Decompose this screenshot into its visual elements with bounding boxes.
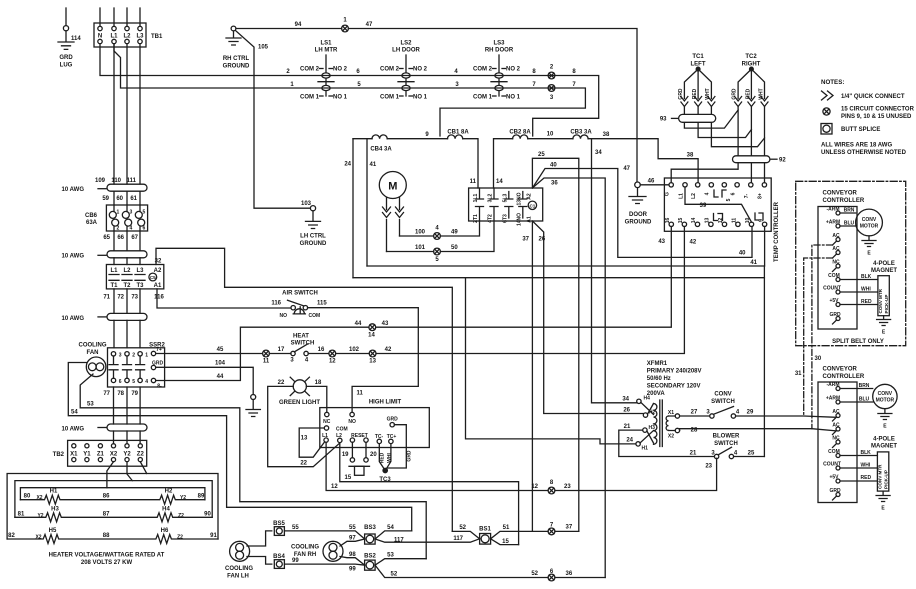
heater bus 1 outer <box>7 474 218 540</box>
svg-text:38: 38 <box>603 132 610 138</box>
svg-text:BLK: BLK <box>861 274 872 280</box>
wire TC1 WHT to TC2 WHT <box>711 107 764 147</box>
heater bus 2 middle <box>15 481 212 518</box>
svg-text:GRD: GRD <box>59 55 73 61</box>
svg-text:GREEN LIGHT: GREEN LIGHT <box>279 400 320 406</box>
wire 39 L1 to pin 10 <box>685 187 752 222</box>
blower switch <box>711 434 740 459</box>
wire 117 BS3 to BS1 <box>375 539 480 542</box>
green light <box>279 377 320 406</box>
conveyor motor 1 <box>840 208 882 257</box>
svg-text:A1: A1 <box>154 283 162 289</box>
svg-text:N: N <box>98 34 102 40</box>
svg-text:24: 24 <box>626 438 633 444</box>
wire 47 top run <box>349 29 638 182</box>
controller 2 terminal -ARM <box>836 387 840 391</box>
svg-text:TC1: TC1 <box>692 54 704 60</box>
wire 21 H3 to blower switch <box>619 430 715 456</box>
svg-text:M: M <box>388 181 397 193</box>
wire L2 splice to CB6 <box>126 191 128 205</box>
svg-text:G: G <box>665 192 671 196</box>
svg-text:88: 88 <box>103 533 110 539</box>
wire 16 <box>308 353 329 355</box>
contactor C1 pole 5L3 6T3 <box>502 192 513 223</box>
svg-text:GRD: GRD <box>829 488 841 494</box>
svg-text:COOLING: COOLING <box>291 545 319 551</box>
wire pin 9 stub to 41 line <box>764 227 766 267</box>
contactor C1 pole 1L1 2T1 <box>473 188 484 223</box>
svg-text:C5: C5 <box>150 275 156 280</box>
connector splice 14 <box>368 324 376 339</box>
svg-text:TEMP CONTROLLER: TEMP CONTROLLER <box>774 201 780 262</box>
conveyor controller 2 box <box>818 382 857 503</box>
svg-text:28: 28 <box>691 428 698 434</box>
solid state relay SSR2 <box>108 343 166 390</box>
wire 101 <box>387 251 434 253</box>
svg-text:NO 2: NO 2 <box>506 67 521 73</box>
wire GRD high limit to TC3 shield <box>387 425 406 468</box>
svg-text:COUNT: COUNT <box>823 286 841 292</box>
svg-text:BLK: BLK <box>861 450 872 456</box>
svg-text:40: 40 <box>550 163 557 169</box>
reset button terminals <box>352 442 366 457</box>
motor lead left with quick connect arrows <box>386 198 388 252</box>
temp controller pin 11 <box>736 222 740 226</box>
svg-text:78: 78 <box>117 391 124 397</box>
butt splice BS5 <box>273 521 285 535</box>
svg-text:CB3 3A: CB3 3A <box>570 130 592 136</box>
svg-text:10 AWG: 10 AWG <box>62 254 85 260</box>
wire 45 SSR2 to heat switch <box>156 353 262 355</box>
svg-text:Y2: Y2 <box>37 513 43 519</box>
svg-text:53: 53 <box>387 553 394 559</box>
svg-text:21: 21 <box>624 424 631 430</box>
motor M <box>379 172 406 199</box>
controller 1 terminal COUNT <box>836 290 840 294</box>
svg-text:52: 52 <box>459 525 466 531</box>
svg-text:LUG: LUG <box>60 63 73 69</box>
svg-text:LS3: LS3 <box>493 41 505 47</box>
svg-text:HIGH LIMIT: HIGH LIMIT <box>369 400 402 406</box>
svg-text:L1: L1 <box>110 34 118 40</box>
svg-text:L1: L1 <box>110 268 118 274</box>
svg-text:X1: X1 <box>70 451 78 457</box>
wire 94 top run <box>236 28 342 30</box>
svg-text:3L2: 3L2 <box>488 193 494 202</box>
svg-text:5: 5 <box>132 379 135 385</box>
controller 2 terminal +ARM <box>836 400 840 404</box>
svg-text:93: 93 <box>660 117 667 123</box>
svg-text:16: 16 <box>665 218 671 224</box>
svg-text:43: 43 <box>658 239 665 245</box>
svg-text:WHT: WHT <box>758 88 764 99</box>
svg-text:6T3: 6T3 <box>502 214 508 223</box>
svg-text:1: 1 <box>145 352 148 358</box>
svg-text:TB2: TB2 <box>53 452 65 458</box>
svg-text:NO 1: NO 1 <box>506 95 521 101</box>
svg-text:45: 45 <box>217 347 224 353</box>
svg-text:43: 43 <box>382 321 389 327</box>
svg-text:13: 13 <box>705 218 711 224</box>
svg-text:44: 44 <box>355 321 362 327</box>
svg-text:13: 13 <box>369 359 376 365</box>
svg-text:MAGNET: MAGNET <box>871 444 897 450</box>
svg-text:2: 2 <box>132 352 135 358</box>
svg-text:89: 89 <box>198 494 205 500</box>
svg-text:RED: RED <box>861 475 872 481</box>
svg-text:MAGNET: MAGNET <box>871 268 897 274</box>
thermocouple TC2 RIGHT <box>732 54 768 107</box>
wire 46 <box>640 184 669 186</box>
svg-text:NO: NO <box>348 419 356 425</box>
svg-text:COM 1: COM 1 <box>300 95 320 101</box>
TB2 terminal X2 <box>111 444 115 448</box>
wire 54 BS3 diagonal <box>375 531 412 539</box>
svg-text:208 VOLTS 27 KW: 208 VOLTS 27 KW <box>81 560 133 566</box>
svg-text:11: 11 <box>470 179 477 185</box>
svg-text:WHT: WHT <box>705 88 711 99</box>
svg-text:15: 15 <box>345 475 352 481</box>
heater row 2 elements H3 H4 <box>15 506 212 522</box>
svg-text:27: 27 <box>691 410 698 416</box>
svg-text:WHI: WHI <box>861 287 871 293</box>
svg-text:LH MTR: LH MTR <box>315 48 338 54</box>
svg-text:99: 99 <box>349 567 356 573</box>
wire 116 run C5 A1 to air switch NO <box>157 289 290 308</box>
svg-text:T1: T1 <box>110 283 118 289</box>
svg-text:26: 26 <box>623 408 630 414</box>
svg-text:CB6: CB6 <box>85 213 98 219</box>
wire TC2 RED down to pin 7 <box>750 107 752 183</box>
svg-text:L1: L1 <box>322 433 328 439</box>
svg-text:BRN: BRN <box>844 208 855 214</box>
wire TC1 GRD to TC2 GRD <box>684 107 738 129</box>
svg-text:AC: AC <box>832 246 840 252</box>
wire 17 <box>269 353 291 355</box>
svg-text:XFMR1: XFMR1 <box>647 361 668 367</box>
heat switch <box>290 334 314 364</box>
svg-text:BS1: BS1 <box>479 527 491 533</box>
svg-text:104: 104 <box>215 361 226 367</box>
svg-text:47: 47 <box>623 166 630 172</box>
svg-text:BS2: BS2 <box>364 554 376 560</box>
svg-text:BS5: BS5 <box>273 521 285 527</box>
temp controller pin 9 <box>762 222 766 226</box>
controller 2 terminal +5V <box>836 479 840 483</box>
wire 102 <box>336 353 370 355</box>
temp controller pin 4 contact hook <box>714 190 726 197</box>
svg-text:ALL WIRES ARE 18 AWG: ALL WIRES ARE 18 AWG <box>821 143 892 149</box>
svg-text:1/4" QUICK CONNECT: 1/4" QUICK CONNECT <box>841 94 905 100</box>
butt splice 10 AWG no4 <box>62 424 147 433</box>
svg-text:34: 34 <box>622 397 629 403</box>
svg-text:WHI: WHI <box>387 453 393 463</box>
svg-text:111: 111 <box>127 178 137 184</box>
svg-text:DOOR: DOOR <box>629 212 648 218</box>
svg-text:11: 11 <box>357 391 364 397</box>
svg-text:50/60 Hz: 50/60 Hz <box>647 376 671 382</box>
wire L1 splice to CB6 <box>113 191 115 205</box>
terminal block TB2 <box>68 440 147 466</box>
svg-text:24: 24 <box>344 162 351 168</box>
controller 1 terminal +5V <box>836 303 840 307</box>
connector splice 3 <box>548 85 555 101</box>
wire 51 BS1 to splice 7 <box>491 531 548 538</box>
svg-text:14: 14 <box>368 333 375 339</box>
wire 15 L2 to BS1 <box>340 443 519 545</box>
svg-text:MOTOR: MOTOR <box>876 398 895 404</box>
svg-text:GRD: GRD <box>732 88 738 100</box>
svg-text:Z1: Z1 <box>97 451 105 457</box>
svg-text:6: 6 <box>119 379 122 385</box>
svg-text:AC: AC <box>832 409 840 415</box>
temp controller pin L1 <box>683 183 687 187</box>
svg-text:L3: L3 <box>136 34 144 40</box>
svg-text:CONVEYOR: CONVEYOR <box>823 191 858 197</box>
svg-text:116: 116 <box>154 295 164 301</box>
svg-text:54: 54 <box>387 525 394 531</box>
temp controller pin 15 <box>682 222 686 226</box>
wire L3 splice to CB6 <box>139 191 141 205</box>
svg-text:65: 65 <box>103 235 110 241</box>
wire 99 BS4 to BS2 <box>284 564 364 565</box>
ground GRD LUG symbol <box>58 31 74 50</box>
svg-text:15: 15 <box>678 218 684 224</box>
svg-text:COM: COM <box>828 273 840 279</box>
svg-text:15: 15 <box>502 539 509 545</box>
wire 97 fan RH to BS3 <box>340 539 365 546</box>
svg-text:114: 114 <box>71 36 81 42</box>
wire 53 BS2 diagonal <box>375 559 426 565</box>
svg-text:8+: 8+ <box>758 193 764 199</box>
svg-text:PICK-UP: PICK-UP <box>884 295 889 314</box>
svg-text:GRD: GRD <box>152 361 164 367</box>
conveyor motor 2 <box>840 383 897 430</box>
svg-text:LS1: LS1 <box>320 41 332 47</box>
svg-text:97: 97 <box>349 535 356 541</box>
svg-text:RH CTRL: RH CTRL <box>223 56 250 62</box>
svg-text:COOLING: COOLING <box>79 343 107 349</box>
svg-text:COUNT: COUNT <box>823 462 841 468</box>
svg-text:73: 73 <box>131 295 138 301</box>
svg-text:38: 38 <box>687 153 694 159</box>
butt splice 10 AWG no3 <box>62 313 147 322</box>
svg-text:66: 66 <box>117 235 124 241</box>
svg-text:72: 72 <box>117 295 124 301</box>
svg-text:Y2: Y2 <box>180 495 186 501</box>
svg-text:GRD: GRD <box>407 450 413 462</box>
svg-text:SECONDARY 120V: SECONDARY 120V <box>647 384 701 390</box>
svg-text:80: 80 <box>24 494 31 500</box>
limit switch LS3 RH DOOR <box>473 41 521 101</box>
reset button <box>349 465 370 467</box>
svg-text:CONV MTR: CONV MTR <box>878 464 883 489</box>
air switch <box>271 291 327 320</box>
wire 38 <box>588 139 698 183</box>
svg-text:105: 105 <box>258 45 269 51</box>
wire 44 SSR2 to splice 14 <box>156 327 369 380</box>
TB1 terminal L3 <box>138 26 142 30</box>
svg-text:22: 22 <box>300 461 307 467</box>
svg-text:H4: H4 <box>644 396 651 402</box>
wire 105 <box>235 30 310 208</box>
LH ctrl ground terminal <box>310 206 315 211</box>
svg-text:37: 37 <box>566 524 573 530</box>
RH ctrl ground symbol <box>226 31 241 45</box>
svg-text:5: 5 <box>143 210 146 216</box>
heater row 3 elements H5 H6 <box>7 528 218 544</box>
svg-text:115: 115 <box>317 301 327 307</box>
svg-text:FAN: FAN <box>87 350 99 356</box>
connector splice 4 <box>434 226 441 240</box>
svg-text:COOLING: COOLING <box>225 566 253 572</box>
controller 1 terminal NC <box>836 264 840 268</box>
svg-text:CONV: CONV <box>714 392 731 398</box>
wire 37 splice 7 to vertical <box>555 530 579 532</box>
svg-text:GROUND: GROUND <box>625 220 652 226</box>
svg-text:L1: L1 <box>678 193 684 199</box>
cooling fan LH <box>225 541 253 579</box>
wire 25 from A2 <box>532 158 578 531</box>
door ground symbol <box>629 188 646 204</box>
svg-text:1L1: 1L1 <box>473 193 479 202</box>
svg-text:110: 110 <box>111 178 121 184</box>
TB2 terminal Y1 <box>85 444 89 448</box>
controller 2 terminal NC <box>836 440 840 444</box>
temp controller box <box>664 178 771 231</box>
svg-text:+5V: +5V <box>829 475 839 481</box>
wire 37 from A1 <box>531 221 533 531</box>
svg-text:+ARM: +ARM <box>826 220 840 226</box>
connector splice 1 <box>342 18 349 32</box>
svg-text:9: 9 <box>758 219 764 222</box>
svg-text:TC-: TC- <box>375 434 384 440</box>
wire 52 into BS1 <box>452 531 479 538</box>
svg-text:RH DOOR: RH DOOR <box>485 48 514 54</box>
svg-text:14NO: 14NO <box>516 213 522 226</box>
svg-text:NC: NC <box>832 260 840 266</box>
svg-text:BS4: BS4 <box>273 554 285 560</box>
svg-text:7+: 7+ <box>156 347 162 353</box>
butt splice BS1 <box>479 527 491 545</box>
svg-text:-ARM: -ARM <box>826 382 839 388</box>
svg-text:COM: COM <box>309 313 321 319</box>
wire 22 green light to high limit L2 <box>268 386 340 466</box>
circuit breaker CB1 8A <box>447 130 469 139</box>
svg-text:36: 36 <box>551 181 558 187</box>
wire 40 from A2 <box>532 169 752 258</box>
temp controller pin 6 <box>735 183 739 187</box>
svg-text:FAN RH: FAN RH <box>294 552 316 558</box>
wire L2 to CB6 <box>126 44 128 184</box>
heater bus 3 inner <box>20 488 205 500</box>
svg-text:GROUND: GROUND <box>223 64 250 70</box>
svg-text:BUTT SPLICE: BUTT SPLICE <box>841 127 880 133</box>
wire 49 <box>440 221 479 236</box>
svg-text:101: 101 <box>415 245 426 251</box>
svg-text:90: 90 <box>204 511 211 517</box>
svg-text:23: 23 <box>705 464 712 470</box>
svg-text:H2: H2 <box>165 489 173 495</box>
svg-text:H6: H6 <box>161 528 169 534</box>
svg-text:47: 47 <box>366 22 373 28</box>
svg-text:41: 41 <box>750 260 757 266</box>
svg-text:19: 19 <box>342 452 349 458</box>
svg-text:COM 2: COM 2 <box>300 67 320 73</box>
svg-text:34: 34 <box>595 150 602 156</box>
svg-text:NO 1: NO 1 <box>413 95 428 101</box>
svg-text:13: 13 <box>301 436 308 442</box>
svg-text:BLU: BLU <box>844 221 855 227</box>
svg-text:A2: A2 <box>527 193 533 200</box>
wires SSR2 to splice4 <box>114 387 141 424</box>
svg-text:4: 4 <box>130 226 133 232</box>
connector splice 7 <box>548 523 555 535</box>
svg-text:4: 4 <box>145 379 148 385</box>
wire 43 to temp controller pin 16 <box>376 227 672 328</box>
butt splice 92 <box>733 156 787 164</box>
wire 27 X1 to conv switch <box>680 415 710 417</box>
svg-text:+ARM: +ARM <box>826 396 840 402</box>
wire TC2 WHT down to pin 8 <box>764 107 766 183</box>
wire N to control circuit <box>100 44 599 136</box>
svg-text:Y2: Y2 <box>123 451 131 457</box>
svg-text:BLOWER: BLOWER <box>713 434 740 440</box>
butt splice 10 AWG no1 <box>62 184 147 193</box>
svg-text:7-: 7- <box>744 193 750 198</box>
svg-text:92: 92 <box>779 158 786 164</box>
ground lug terminal circle <box>63 26 68 31</box>
svg-text:GRD: GRD <box>678 88 684 100</box>
svg-text:MOTOR: MOTOR <box>860 224 879 230</box>
svg-text:NO 2: NO 2 <box>333 67 348 73</box>
wires CB6 to splice <box>114 231 140 251</box>
svg-text:X2: X2 <box>668 434 674 440</box>
TB1 terminal L2 <box>125 26 129 30</box>
svg-text:2: 2 <box>117 226 120 232</box>
svg-text:CB2 8A: CB2 8A <box>509 130 531 136</box>
TB2 terminal Z2 <box>138 444 142 448</box>
svg-text:BLU: BLU <box>859 397 870 403</box>
svg-text:GROUND: GROUND <box>300 241 327 247</box>
controller 1 terminal AC b <box>836 251 840 255</box>
svg-text:TC2: TC2 <box>745 54 757 60</box>
svg-text:4-POLE: 4-POLE <box>873 261 895 267</box>
svg-text:13NO: 13NO <box>516 192 522 205</box>
svg-text:LH DOOR: LH DOOR <box>392 48 420 54</box>
svg-text:NO: NO <box>280 313 288 319</box>
wire 9 <box>387 138 447 140</box>
svg-text:L2: L2 <box>336 433 342 439</box>
wire 31 controller1 AC to controller2 AC <box>804 258 833 416</box>
wire L1 branch to control circuit <box>114 44 585 136</box>
svg-text:GRD: GRD <box>829 312 841 318</box>
svg-text:42: 42 <box>385 347 392 353</box>
svg-text:31: 31 <box>795 371 802 377</box>
svg-text:11: 11 <box>263 359 270 365</box>
svg-text:91: 91 <box>210 533 217 539</box>
svg-text:52: 52 <box>531 571 538 577</box>
svg-text:2T1: 2T1 <box>473 214 479 223</box>
svg-text:HEATER VOLTAGE/WATTAGE RATED A: HEATER VOLTAGE/WATTAGE RATED AT <box>49 553 165 559</box>
temp controller pin G <box>669 183 673 187</box>
TB2 terminal X1 <box>72 444 76 448</box>
svg-text:4-POLE: 4-POLE <box>873 437 895 443</box>
LH ctrl ground symbol <box>306 211 321 229</box>
svg-text:63A: 63A <box>86 220 98 226</box>
svg-text:BS3: BS3 <box>364 525 376 531</box>
conv mtr pickup 1 <box>840 274 891 336</box>
